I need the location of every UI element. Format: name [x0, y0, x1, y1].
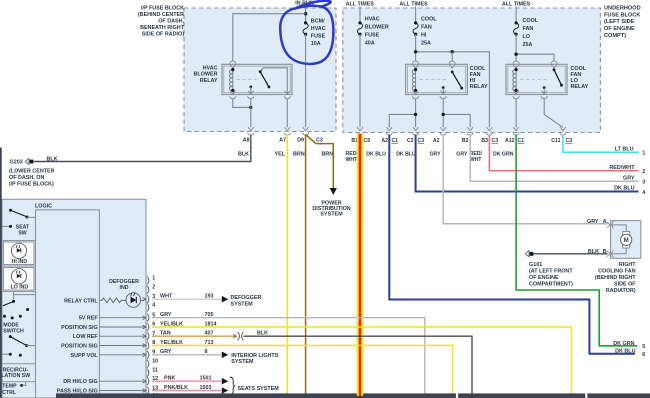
svg-text:RELAY: RELAY: [571, 84, 589, 90]
pin numbers 1-14: [152, 275, 158, 398]
svg-text:TEMP: TEMP: [2, 384, 17, 390]
svg-text:COOLING FAN: COOLING FAN: [598, 269, 636, 275]
ground G101: [525, 250, 533, 257]
svg-text:ALL TIMES: ALL TIMES: [399, 1, 428, 7]
svg-text:DK BLU: DK BLU: [396, 152, 416, 158]
wire: TAN 407 with inline splice to BLK: [152, 331, 472, 394]
svg-text:713: 713: [205, 340, 214, 346]
wire: switch feed drop: [451, 52, 453, 62]
svg-text:RADIATOR): RADIATOR): [606, 288, 636, 294]
module: LOGIC block: [35, 204, 99, 398]
svg-text:RELAY: RELAY: [200, 78, 218, 84]
wire: RED/WHT from B3/C3 to circuit 2: [489, 135, 638, 171]
svg-text:SWITCH: SWITCH: [3, 328, 24, 334]
svg-text:A12: A12: [505, 138, 515, 144]
junction: [249, 106, 252, 109]
svg-text:FAN: FAN: [421, 25, 432, 31]
fuse F4 COOL FAN LO 25A: [514, 21, 519, 36]
junction: feed split to relay coil: [304, 12, 307, 15]
labels: right edge circuits: [609, 146, 635, 354]
K3 actuator dashed link: [520, 79, 549, 81]
svg-text:OF DASH,: OF DASH,: [158, 19, 184, 25]
K2 relay coil: [412, 68, 417, 92]
connector chevrons at K2 top edge: [412, 61, 455, 68]
svg-text:SIDE OF: SIDE OF: [614, 282, 636, 288]
switch: MODE SWITCH: [2, 292, 36, 357]
connector chevrons at underhood fuse block bottom edge: [357, 127, 566, 135]
svg-text:HVAC: HVAC: [203, 66, 218, 72]
connector chevrons at K2 bottom edge: [412, 91, 446, 99]
fuse F1 BCM/HVAC 10A: [303, 21, 308, 36]
svg-text:GRY: GRY: [160, 312, 172, 318]
label: HVAC BLOWER RELAY: [194, 66, 218, 84]
arrow: to power distribution system: [330, 188, 337, 195]
svg-text:LOGIC: LOGIC: [35, 204, 52, 210]
svg-text:TAN: TAN: [160, 331, 171, 337]
K2 switch contacts: [442, 71, 463, 95]
svg-text:RELAY CTRL: RELAY CTRL: [64, 298, 98, 304]
scrollbar: left edge: [0, 148, 2, 398]
svg-text:WHT: WHT: [346, 157, 359, 163]
svg-text:YEL/BLK: YEL/BLK: [160, 340, 183, 346]
wire: GRY 8 to interior lights system: [152, 349, 279, 365]
svg-text:C5: C5: [364, 138, 371, 144]
svg-text:A2: A2: [381, 138, 388, 144]
svg-text:FUSE: FUSE: [311, 34, 326, 40]
wire: K2 common splits to A2 and B2: [442, 99, 444, 128]
label: POWER DISTRIBUTION SYSTEM: [312, 200, 350, 217]
svg-text:3: 3: [642, 179, 645, 185]
svg-text:M: M: [624, 238, 629, 244]
wire color labels under underhood block: [346, 151, 514, 163]
svg-text:C2: C2: [407, 138, 414, 144]
svg-text:I/P FUSE BLOCK): I/P FUSE BLOCK): [9, 181, 54, 187]
svg-text:DK BLU: DK BLU: [615, 349, 635, 355]
wire: BLK from motor B to ground G101: [531, 253, 607, 255]
wire: fuse LO output down to coil: [515, 34, 517, 61]
svg-text:C1: C1: [518, 138, 525, 144]
node IN RUN: [295, 0, 314, 6]
svg-text:PNK: PNK: [164, 376, 175, 382]
svg-text:193: 193: [205, 294, 214, 300]
junction: [414, 113, 417, 116]
junction: [442, 113, 445, 116]
svg-text:SEATS SYSTEM: SEATS SYSTEM: [238, 386, 280, 392]
svg-text:2: 2: [642, 169, 645, 175]
svg-text:DK GRN: DK GRN: [493, 152, 514, 158]
pin labels A8 A7 D9 C3: [243, 137, 323, 143]
svg-text:1: 1: [642, 151, 645, 157]
note: G203 location: [9, 168, 55, 187]
value label: BCM/HVAC FUSE 10A: [311, 19, 326, 47]
wire: YEL/BLK 1814: [152, 321, 572, 393]
svg-text:BRN: BRN: [322, 152, 334, 158]
value label: HVAC BLOWER FUSE 40A: [365, 17, 389, 47]
svg-text:DK GRN: DK GRN: [613, 341, 634, 347]
svg-text:D9: D9: [297, 137, 304, 143]
value label: COOL FAN HI 25A: [421, 17, 437, 47]
resistor: relay ctrl series resistor: [99, 298, 144, 303]
left column cell dividers: [2, 241, 36, 382]
wire: switch common down to pin A8: [250, 99, 252, 128]
svg-text:B2: B2: [462, 138, 469, 144]
svg-text:RELAY: RELAY: [470, 84, 488, 90]
node ALL TIMES (hot at all times feeds): [346, 1, 531, 7]
svg-text:11: 11: [152, 368, 158, 374]
svg-text:SW: SW: [18, 231, 26, 237]
svg-text:6: 6: [642, 352, 645, 358]
connector pin chevrons 1-14: [143, 277, 149, 398]
wire: RED/WHT from B1/C5 (highlighted circuit): [357, 134, 363, 394]
svg-text:2: 2: [152, 285, 155, 291]
fuse block: I/P fuse block (dashed box): [184, 8, 336, 132]
svg-text:5V REF: 5V REF: [79, 316, 99, 322]
svg-text:BLK: BLK: [238, 152, 249, 158]
wire: PNK/BLK 1503: [152, 385, 228, 394]
svg-text:UNDERHOOD: UNDERHOOD: [604, 5, 641, 11]
svg-text:OF ENGINE: OF ENGINE: [529, 275, 559, 281]
svg-text:POSITION SIG: POSITION SIG: [61, 325, 98, 331]
svg-text:I/P FUSE BLOCK: I/P FUSE BLOCK: [141, 6, 184, 12]
motor M1 right cooling fan: [611, 221, 641, 259]
svg-text:5: 5: [642, 344, 645, 350]
wire: feed to HVAC blower fuse: [359, 6, 361, 23]
wire: feed to cool fan lo fuse: [515, 6, 517, 23]
brace and label: SEATS SYSTEM: [230, 377, 279, 395]
label: COOL FAN HI RELAY: [470, 66, 488, 90]
wire: BRN from D9 down: [305, 135, 307, 394]
wire: K3 coil return to A12/C1: [515, 99, 517, 128]
svg-text:DK BLU: DK BLU: [614, 186, 634, 192]
wire: fuse output down to pin D9: [305, 34, 307, 127]
svg-text:B3: B3: [481, 138, 488, 144]
connector chevrons at K3 top edge: [513, 61, 557, 68]
wire: K3 common to C11/C3: [544, 99, 563, 128]
svg-text:1503: 1503: [200, 385, 212, 391]
svg-text:YEL/BLK: YEL/BLK: [160, 321, 183, 327]
note: I/P fuse block location: [138, 6, 185, 38]
svg-text:OF DASH, ON: OF DASH, ON: [9, 175, 44, 181]
wire: fuse 40A output down to pin B1: [359, 34, 361, 127]
annotation: hand-drawn blue circle around BCM/HVAC fuse: [280, 1, 333, 64]
connector chevrons at K3 bottom edge: [513, 91, 547, 99]
wire: K2 coil return splits to A2/C1 and C2/C3: [415, 99, 417, 128]
wire: PNK 1501: [152, 376, 228, 385]
svg-text:LATION SW: LATION SW: [1, 373, 30, 379]
svg-text:SYSTEM: SYSTEM: [231, 359, 254, 365]
svg-text:(LEFT SIDE: (LEFT SIDE: [604, 19, 635, 25]
svg-text:BLK: BLK: [47, 156, 58, 162]
wire: IN RUN feed down to fuse: [305, 6, 307, 23]
svg-text:WHT: WHT: [160, 294, 173, 300]
svg-text:4: 4: [152, 302, 155, 308]
svg-text:INTERIOR LIGHTS: INTERIOR LIGHTS: [231, 353, 278, 359]
wire: WHT 193 to defogger system: [152, 294, 262, 308]
svg-text:10: 10: [152, 359, 158, 365]
svg-text:DEFOGGER: DEFOGGER: [231, 295, 262, 301]
relay K2 cool fan hi relay: [406, 64, 468, 94]
fuse F3 COOL FAN HI 25A: [413, 21, 418, 36]
svg-text:POSITION SIG: POSITION SIG: [61, 344, 98, 350]
wires: logic outputs to connector: [99, 318, 144, 391]
note: right cooling fan location: [595, 262, 636, 294]
svg-text:CTRL: CTRL: [2, 390, 17, 396]
svg-text:1: 1: [152, 275, 155, 281]
wire: RED/WHT highlight continues over scrollbar: [357, 393, 363, 395]
wire: feed across to switch and B3: [416, 52, 490, 127]
indicator lamp: HI IND: [3, 242, 34, 265]
svg-text:G101: G101: [529, 262, 542, 268]
wire: BLK from A8 to ground G203: [33, 135, 251, 162]
svg-text:HI IND: HI IND: [12, 259, 28, 265]
connector chevrons at fuse block bottom edge (A8 A7 D9): [248, 127, 309, 135]
svg-text:FUSE: FUSE: [365, 33, 380, 39]
labels: motor terminals A and B: [587, 219, 607, 255]
label: COOL FAN LO RELAY: [571, 66, 589, 90]
relay switch contacts: [249, 68, 287, 95]
svg-text:LO: LO: [523, 34, 531, 40]
circuit numbers 1-6: [642, 151, 645, 359]
K3 switch contacts: [543, 68, 563, 94]
svg-text:1814: 1814: [205, 321, 217, 327]
svg-text:LOW REF: LOW REF: [73, 334, 99, 340]
svg-text:WHT: WHT: [470, 157, 483, 163]
wire: DK BLU from A2/C1 to right cooling fan circuit 6: [389, 135, 635, 354]
junction: [514, 53, 517, 56]
connector chevron: relay coil feed (top edge): [230, 61, 236, 68]
note: G101 location: [529, 262, 573, 288]
svg-text:DK BLU: DK BLU: [366, 152, 386, 158]
svg-text:HVAC: HVAC: [311, 26, 326, 32]
svg-text:407: 407: [205, 331, 214, 337]
value label: COOL FAN LO 25A: [523, 18, 539, 48]
wire: feed across to K3 switch: [516, 54, 554, 61]
wire: GRY from B2 to circuit 3: [470, 135, 638, 182]
svg-text:HVAC: HVAC: [365, 17, 380, 23]
svg-text:C1: C1: [392, 138, 399, 144]
wire: YEL/BLK 713: [152, 340, 453, 394]
svg-text:(AT LEFT FRONT: (AT LEFT FRONT: [529, 269, 573, 275]
sensor: TEMP CTRL: [2, 382, 26, 396]
svg-text:GRY: GRY: [160, 349, 172, 355]
svg-text:GRY: GRY: [587, 219, 599, 225]
wire: GRY 705: [152, 312, 425, 394]
wire: fuse 25A output to relay feed: [415, 34, 417, 61]
wire: YEL from A7 down: [286, 135, 288, 394]
svg-text:COOL: COOL: [523, 18, 539, 24]
connector chevrons at motor terminals: [607, 222, 614, 258]
svg-text:BCM/: BCM/: [311, 19, 325, 25]
scrollbar: bottom: [56, 393, 650, 398]
wire: coil return joins switch common: [233, 99, 251, 108]
svg-text:BLOWER: BLOWER: [194, 72, 218, 78]
svg-text:RED/WHT: RED/WHT: [609, 165, 635, 171]
svg-text:C3: C3: [316, 137, 323, 143]
module: HVAC control assembly (outer box): [2, 199, 146, 398]
svg-text:G203: G203: [10, 160, 23, 166]
relay actuator dashed link: [237, 79, 257, 81]
svg-text:COMPARTMENT): COMPARTMENT): [529, 282, 573, 288]
svg-text:(LOWER CENTER: (LOWER CENTER: [9, 168, 55, 174]
svg-text:40A: 40A: [365, 41, 375, 47]
svg-text:DR HI/LO SIG: DR HI/LO SIG: [63, 379, 97, 385]
svg-text:COOL: COOL: [421, 17, 437, 23]
junction: switch feed: [451, 50, 454, 53]
relay K3 cool fan lo relay: [506, 64, 567, 94]
indicator lamp: LO IND: [3, 268, 34, 291]
wire: branch to HVAC blower relay coil: [233, 14, 306, 62]
relay K1 HVAC blower relay: [222, 64, 292, 94]
switch: RECIRCULATION SW: [1, 367, 30, 379]
svg-text:8: 8: [205, 349, 208, 355]
svg-text:SIDE OF RADIO): SIDE OF RADIO): [142, 32, 184, 38]
svg-text:SUPP VOL: SUPP VOL: [71, 353, 99, 359]
svg-text:FUSE BLOCK: FUSE BLOCK: [604, 12, 640, 18]
fuse F2 HVAC BLOWER FUSE 40A: [357, 21, 362, 36]
K3 relay coil: [513, 68, 518, 92]
svg-text:705: 705: [205, 312, 214, 318]
svg-text:BENEATH RIGHT: BENEATH RIGHT: [140, 25, 185, 31]
svg-text:IND: IND: [120, 285, 129, 291]
svg-text:GRY: GRY: [623, 175, 635, 181]
svg-text:FAN: FAN: [523, 26, 534, 32]
relay coil: [229, 68, 234, 92]
svg-text:25A: 25A: [523, 42, 533, 48]
svg-text:GRY: GRY: [456, 152, 468, 158]
junction: coil feed: [414, 50, 417, 53]
svg-text:10A: 10A: [311, 41, 321, 47]
svg-text:C11: C11: [551, 138, 560, 144]
wire: LT BLU from C11/C3 to circuit 1: [563, 135, 639, 153]
svg-text:A8: A8: [243, 137, 250, 143]
indicator: DEFOGGER IND: [109, 279, 140, 307]
ground G203: [10, 158, 34, 166]
svg-text:C3: C3: [492, 138, 499, 144]
signal labels inside logic box: [57, 316, 99, 395]
svg-text:SEAT: SEAT: [16, 224, 30, 230]
svg-text:LO IND: LO IND: [11, 284, 29, 290]
svg-text:PNK/BLK: PNK/BLK: [164, 385, 188, 391]
svg-text:COMPT): COMPT): [604, 33, 626, 39]
svg-text:1501: 1501: [200, 376, 212, 382]
wire: BRN from C3 to power distribution: [306, 135, 334, 188]
svg-text:A2: A2: [433, 138, 440, 144]
svg-text:RIGHT: RIGHT: [619, 262, 636, 268]
svg-text:C3: C3: [566, 138, 573, 144]
wire: DK BLU from C2/C3 to circuit 4: [416, 135, 639, 192]
wire color labels BLK YEL BRN BRN: [238, 152, 333, 158]
wire: feed to cool fan hi fuse: [415, 6, 417, 23]
svg-text:SYSTEM: SYSTEM: [231, 301, 254, 307]
svg-text:BLOWER: BLOWER: [365, 25, 389, 31]
connector chevrons at relay bottom edge: [230, 91, 291, 99]
wire: GRY from A2 to motor terminal A: [443, 135, 607, 224]
note: underhood fuse block location: [604, 5, 641, 39]
K2 actuator dashed link: [420, 79, 449, 81]
svg-text:YEL: YEL: [275, 152, 286, 158]
svg-text:25A: 25A: [421, 41, 431, 47]
svg-text:HI: HI: [421, 33, 427, 39]
svg-text:GRY: GRY: [430, 152, 442, 158]
svg-text:4: 4: [642, 190, 645, 196]
wire: relay output down to pin A7: [286, 99, 288, 128]
svg-text:A: A: [603, 219, 607, 225]
pin labels underhood connector row: [351, 138, 572, 144]
switch: SEAT SW: [2, 209, 36, 237]
svg-text:(BEHIND CENTER: (BEHIND CENTER: [138, 12, 184, 18]
svg-text:C3: C3: [418, 138, 425, 144]
wire: DK GRN from A12/C1 to circuit 5: [516, 135, 637, 346]
svg-text:OF ENGINE: OF ENGINE: [604, 26, 635, 32]
svg-text:(BEHIND RIGHT: (BEHIND RIGHT: [595, 275, 636, 281]
svg-text:SYSTEM: SYSTEM: [320, 211, 343, 217]
svg-text:A7: A7: [279, 137, 286, 143]
svg-text:BRN: BRN: [293, 152, 305, 158]
fuse block: underhood fuse block (dashed box): [343, 8, 601, 133]
svg-text:LT BLU: LT BLU: [615, 146, 634, 152]
